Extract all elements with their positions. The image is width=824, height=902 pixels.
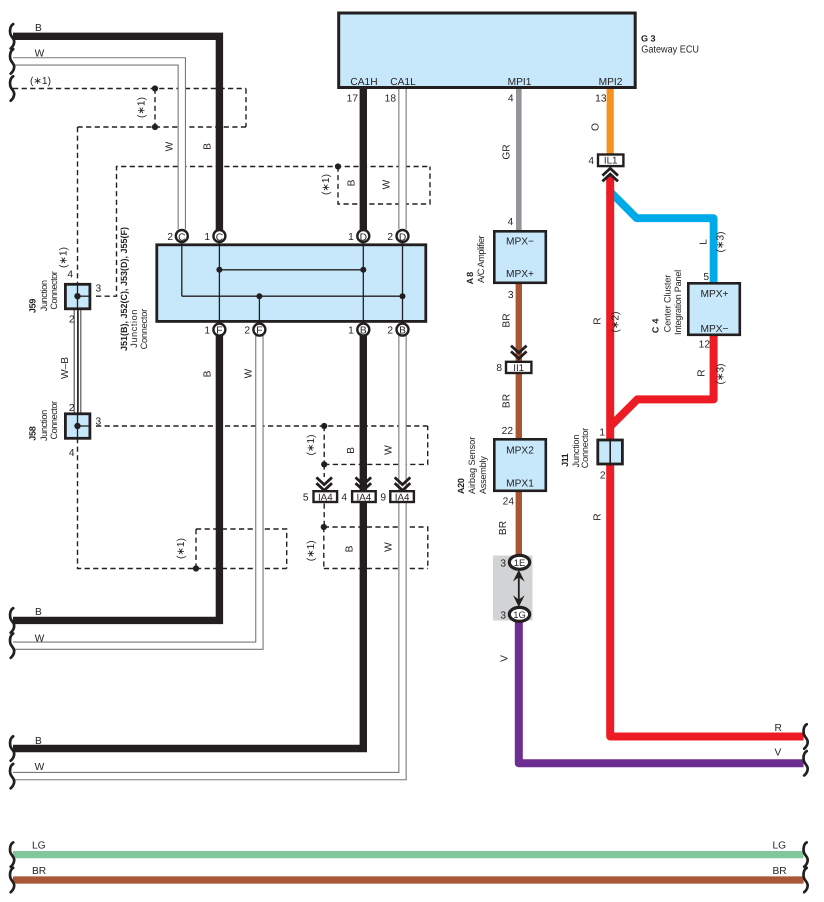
svg-text:A20: A20	[456, 478, 466, 494]
svg-text:(∗3): (∗3)	[716, 232, 727, 253]
svg-text:(∗1): (∗1)	[137, 97, 148, 118]
svg-text:2: 2	[244, 326, 250, 337]
svg-text:C 4: C 4	[651, 319, 661, 334]
svg-text:R: R	[593, 317, 604, 324]
svg-text:8: 8	[496, 363, 502, 374]
svg-text:B: B	[203, 370, 214, 377]
svg-text:Integration Panel: Integration Panel	[673, 270, 683, 335]
svg-text:B: B	[360, 325, 367, 336]
svg-text:4: 4	[67, 270, 73, 281]
svg-text:BR: BR	[498, 521, 509, 535]
svg-text:D: D	[399, 233, 406, 244]
svg-text:LG: LG	[32, 841, 46, 852]
svg-text:13: 13	[595, 94, 607, 105]
svg-text:J51(B), J52(C), J53(D), J55(F): J51(B), J52(C), J53(D), J55(F)	[119, 227, 129, 351]
svg-text:Junction: Junction	[39, 280, 49, 311]
svg-text:3: 3	[508, 290, 514, 301]
svg-text:W–B: W–B	[60, 357, 71, 379]
svg-text:MPI2: MPI2	[599, 77, 623, 88]
svg-text:(∗3): (∗3)	[716, 364, 727, 385]
svg-text:W: W	[35, 762, 45, 773]
svg-text:Junction: Junction	[129, 310, 139, 348]
svg-text:2: 2	[69, 403, 75, 414]
svg-text:MPX+: MPX+	[506, 269, 534, 280]
svg-text:J59: J59	[28, 299, 38, 314]
svg-text:1G: 1G	[513, 609, 526, 620]
svg-text:B: B	[35, 736, 42, 747]
svg-text:MPX1: MPX1	[506, 479, 534, 490]
svg-text:W: W	[165, 141, 176, 151]
svg-text:3: 3	[500, 611, 506, 622]
svg-text:W: W	[382, 179, 393, 189]
svg-text:A 8: A 8	[465, 272, 475, 285]
svg-text:MPX−: MPX−	[506, 237, 534, 248]
svg-text:C: C	[216, 233, 223, 244]
svg-text:Gateway ECU: Gateway ECU	[641, 45, 699, 56]
svg-text:CA1L: CA1L	[390, 77, 416, 88]
svg-text:W: W	[35, 634, 45, 645]
svg-text:2: 2	[387, 232, 393, 243]
svg-text:W: W	[244, 368, 255, 378]
svg-text:(∗1): (∗1)	[321, 174, 332, 195]
svg-text:1E: 1E	[514, 557, 525, 568]
svg-text:Center Cluster: Center Cluster	[663, 275, 673, 333]
svg-text:IL1: IL1	[604, 156, 618, 167]
svg-text:C: C	[178, 233, 185, 244]
svg-text:Junction: Junction	[39, 410, 49, 441]
svg-text:4: 4	[508, 217, 514, 228]
svg-text:9: 9	[380, 493, 386, 504]
svg-text:5: 5	[703, 272, 709, 283]
svg-text:1: 1	[348, 232, 354, 243]
svg-text:B: B	[35, 23, 42, 34]
svg-text:MPX+: MPX+	[700, 289, 728, 300]
svg-text:2: 2	[600, 471, 606, 482]
svg-text:BR: BR	[773, 866, 787, 877]
svg-text:CA1H: CA1H	[350, 77, 377, 88]
svg-text:(∗1): (∗1)	[176, 538, 187, 559]
svg-text:B: B	[345, 545, 356, 552]
svg-text:L: L	[699, 239, 710, 245]
svg-text:2: 2	[69, 315, 75, 326]
svg-text:G 3: G 3	[641, 33, 656, 43]
svg-text:3: 3	[96, 417, 102, 428]
svg-text:B: B	[203, 143, 214, 150]
svg-text:II1: II1	[513, 363, 524, 374]
svg-text:4: 4	[341, 493, 347, 504]
svg-text:Airbag Sensor: Airbag Sensor	[467, 437, 477, 494]
svg-text:BR: BR	[502, 394, 513, 408]
svg-text:24: 24	[503, 497, 515, 508]
svg-text:LG: LG	[773, 841, 787, 852]
svg-text:B: B	[346, 447, 357, 454]
svg-text:(∗1): (∗1)	[306, 540, 317, 561]
svg-text:4: 4	[508, 94, 514, 105]
svg-text:W: W	[383, 542, 394, 552]
svg-text:A/C Amplifier: A/C Amplifier	[476, 235, 486, 283]
svg-text:BR: BR	[502, 313, 513, 327]
svg-text:5: 5	[303, 493, 309, 504]
svg-text:2: 2	[387, 326, 393, 337]
svg-text:J11: J11	[560, 453, 570, 467]
svg-text:J58: J58	[28, 426, 38, 441]
svg-text:(∗1): (∗1)	[306, 435, 317, 456]
svg-text:18: 18	[385, 94, 397, 105]
svg-text:(∗1): (∗1)	[59, 247, 70, 268]
svg-text:1: 1	[348, 326, 354, 337]
svg-text:Connector: Connector	[580, 428, 590, 469]
svg-text:B: B	[35, 607, 42, 618]
svg-text:4: 4	[69, 448, 75, 459]
svg-text:22: 22	[502, 426, 514, 437]
svg-text:D: D	[360, 233, 367, 244]
svg-text:(∗1): (∗1)	[30, 76, 51, 87]
svg-text:F: F	[216, 325, 222, 336]
svg-text:V: V	[500, 655, 511, 662]
svg-text:(∗2): (∗2)	[611, 312, 622, 333]
svg-text:F: F	[256, 325, 262, 336]
svg-text:IA4: IA4	[395, 492, 410, 503]
svg-text:1: 1	[599, 428, 605, 439]
svg-text:4: 4	[588, 156, 594, 167]
svg-text:MPX−: MPX−	[700, 324, 728, 335]
svg-text:2: 2	[167, 232, 173, 243]
svg-text:MPI1: MPI1	[508, 77, 532, 88]
svg-text:1: 1	[204, 326, 210, 337]
svg-text:B: B	[399, 325, 406, 336]
svg-text:W: W	[35, 49, 45, 60]
svg-text:1: 1	[204, 232, 210, 243]
svg-text:Assembly: Assembly	[478, 456, 488, 494]
svg-text:IA4: IA4	[357, 492, 372, 503]
svg-text:BR: BR	[32, 866, 46, 877]
svg-text:W: W	[383, 445, 394, 455]
svg-text:Connector: Connector	[139, 309, 149, 350]
svg-text:O: O	[591, 123, 602, 131]
svg-text:V: V	[775, 748, 782, 759]
svg-text:R: R	[593, 513, 604, 520]
svg-text:GR: GR	[502, 144, 513, 159]
svg-text:R: R	[697, 369, 708, 376]
svg-text:3: 3	[96, 284, 102, 295]
svg-text:MPX2: MPX2	[506, 446, 534, 457]
svg-text:B: B	[347, 179, 358, 186]
svg-text:Connector: Connector	[49, 271, 59, 310]
svg-text:R: R	[775, 723, 782, 734]
svg-text:17: 17	[347, 94, 359, 105]
svg-text:3: 3	[500, 559, 506, 570]
svg-text:IA4: IA4	[318, 492, 333, 503]
svg-text:Connector: Connector	[49, 401, 59, 440]
svg-text:12: 12	[699, 340, 711, 351]
